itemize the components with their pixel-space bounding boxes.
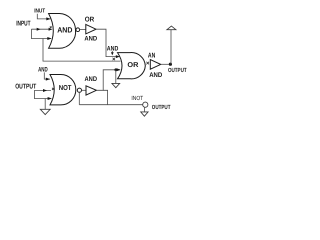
svg-text:NOT: NOT (59, 84, 72, 92)
wire from dot down to port (mid) (115, 70, 117, 84)
port open triangle down (mid) (112, 83, 120, 87)
wire arrow into AND1 input3 (47, 37, 51, 40)
wire OUTPUT branch down to NOT4 input3 (34, 91, 50, 99)
wire INOT circle down to port (144, 107, 146, 112)
svg-text:OUTPUT: OUTPUT (168, 67, 187, 74)
wire INUT leader to AND1 input1 (37, 14, 50, 19)
port open triangle up (top right) (167, 26, 176, 30)
svg-text:INOT: INOT (131, 95, 143, 102)
svg-text:OUTPUT: OUTPUT (15, 83, 37, 90)
wire INPUT to AND1 input2 (31, 28, 51, 30)
svg-text:AND: AND (84, 35, 97, 42)
wire arrow into NOT4 input1 (46, 78, 50, 81)
svg-text:OR: OR (127, 62, 138, 69)
gate buffer U6 (triangle) (86, 86, 96, 95)
node junction dot on OR2 input3 (114, 68, 117, 71)
wire OUTPUT to NOT4 input2 (34, 90, 51, 92)
gate OR2 (OR-shaped body) (118, 53, 146, 79)
wire arrow into NOT4 input3 (48, 97, 52, 100)
svg-text:INUT: INUT (34, 8, 45, 14)
svg-text:INPUT: INPUT (16, 21, 31, 28)
port open triangle down (bottom right) (141, 112, 148, 116)
node x mark at NOT4 input2 (52, 88, 54, 90)
wire arrow into OR2 input3 (117, 68, 121, 71)
svg-text:AND: AND (57, 26, 73, 35)
port open triangle down (bottom left) (40, 109, 50, 114)
svg-text:OUTPUT: OUTPUT (152, 104, 171, 111)
svg-text:OR: OR (85, 16, 95, 23)
gate NOT4 (OR-shaped body) (50, 75, 76, 105)
wire U6 output down branch to bottom rail (103, 90, 107, 104)
node x mark at AND1 input2 (50, 26, 52, 28)
wire branch down to port (bottom left) (44, 99, 46, 110)
wire arrow into OR2 input1 (116, 55, 120, 58)
wire branch from input3 wire down to OR2 input2 rail (43, 39, 121, 62)
node x mark at OR2 output (146, 62, 149, 65)
wire bottom rail to INOT port (79, 104, 142, 106)
gate NOT4 output bubble (77, 88, 81, 92)
svg-text:AND: AND (149, 72, 162, 79)
wire bubble4 branch down to bottom rail (78, 92, 80, 104)
wire U5 output to junction (161, 63, 172, 65)
wire INPUT branch down (31, 29, 50, 38)
wire AND label leader to NOT4 input1 (44, 72, 50, 79)
wire arrow into AND1 input1 (46, 17, 50, 20)
node x mark on OR2 input2 wire (113, 58, 115, 60)
wire bubble4 to buffer U6 (82, 89, 87, 91)
wire arrow mid INPUT wire (37, 28, 41, 31)
gate AND1 (OR-shaped body) (49, 14, 76, 49)
wire junction up to top port (170, 30, 172, 64)
wire arrow into AND1 input2 (49, 28, 53, 31)
svg-text:AND: AND (85, 76, 98, 83)
gate OR buffer U3 (triangle) (86, 24, 96, 34)
gate AN buffer U5 (triangle) (150, 60, 160, 70)
node junction dot at output (169, 63, 172, 66)
wire arrow into NOT4 input2 (43, 89, 47, 92)
wire arrow down leader from AND label (111, 51, 113, 53)
wire U3 output right and down to OR2 input1 (96, 29, 119, 56)
wire U6 output up to OR2 input3 (96, 70, 120, 91)
svg-text:AND: AND (38, 67, 48, 74)
gate AND1 output bubble (76, 28, 80, 32)
wire bubble1 to OR-buffer (80, 29, 86, 31)
svg-text:AN: AN (148, 53, 155, 60)
port circle INOT (143, 102, 148, 107)
